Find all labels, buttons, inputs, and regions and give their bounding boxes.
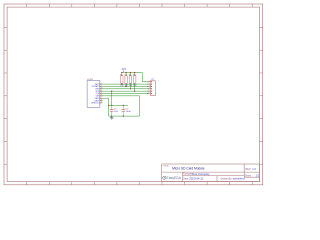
SD card socket CON1 box [87,81,100,108]
wire row CMD to P1 pin4 [104,88,147,90]
resistor R3 [129,73,133,89]
svg-text:REV:: REV: [246,168,252,171]
wire C1 column up to VDD row [111,91,113,105]
CON1 pin numbers [101,83,102,104]
svg-text:4: 4 [149,88,150,90]
wire 3V3 rail [122,72,143,74]
svg-text:1: 1 [101,83,102,85]
svg-text:Date:: Date: [183,177,189,180]
svg-text:3V3: 3V3 [122,68,127,71]
wire 3V3 drop to P1 pin1 [142,73,146,82]
svg-text:2020-04-11: 2020-04-11 [189,177,204,181]
svg-text:R2: R2 [125,74,127,76]
P1 pin connection dots [146,81,149,94]
CON1 pin stubs [100,84,104,103]
title block frame [162,164,260,182]
svg-text:EasyEDA: EasyEDA [167,176,182,180]
svg-text:CON1: CON1 [87,79,94,81]
junction dots cap bottom rail [111,116,112,117]
P1 pin stubs [147,82,151,94]
svg-text:3: 3 [101,88,102,90]
wire row DAT2 to P1 pin2 [104,83,147,85]
sheet border frame [4,4,263,185]
svg-text:Sheet:: Sheet: [245,174,252,177]
svg-text:2: 2 [101,85,102,87]
svg-text:Drawn By:: Drawn By: [221,177,233,180]
svg-text:10uF: 10uF [126,111,131,113]
border tick marks [4,4,263,185]
CON1 pin names [91,83,100,105]
svg-text:5: 5 [101,92,102,94]
P1 pin pads [150,81,153,94]
svg-text:1.0: 1.0 [252,167,256,171]
wire row CD/DAT3 to P1 pin3 [104,85,147,87]
EasyEDA logo [163,176,182,180]
svg-text:SHELL12: SHELL12 [91,103,99,105]
P1 pin numbers [149,80,150,94]
wire cap bottom rail [109,115,140,117]
wire row CLK to P1 pin6 [104,93,147,95]
svg-text:4: 4 [101,90,102,92]
svg-text:R3: R3 [129,74,131,76]
svg-text:3: 3 [149,85,150,87]
svg-text:adminled: adminled [233,177,245,181]
svg-text:8: 8 [101,99,102,101]
svg-text:5: 5 [149,90,150,92]
junction dots on 3V3 rail [121,72,135,73]
svg-text:R4: R4 [133,74,135,76]
3V3 net flag stem [123,71,125,73]
svg-text:1/1: 1/1 [256,173,260,177]
wire DAT0 down to cap loop [104,98,108,116]
junction dots at resistor bottoms [121,84,135,92]
svg-text:6: 6 [149,92,150,94]
svg-text:9: 9 [101,102,102,104]
capacitor C1 [110,105,119,116]
ground symbol [110,116,114,120]
svg-text:TITLE:: TITLE: [163,165,170,167]
svg-text:7: 7 [101,97,102,99]
resistor R4 [133,73,137,92]
connector P1 box [151,81,156,96]
svg-text:Micro SD Card Module: Micro SD Card Module [172,166,204,170]
svg-text:2: 2 [149,83,150,85]
svg-text:Your Company: Your Company [192,172,210,176]
resistor R2 [125,73,129,88]
capacitor C2 [122,105,132,116]
junction dot VDD to C1 column [111,91,112,92]
resistor R1 [120,73,124,88]
wire VSS row to GND riser [104,95,139,97]
svg-text:R1: R1 [120,74,122,76]
svg-text:1: 1 [149,80,150,82]
wire GND riser [139,96,141,116]
wire cap top rail [109,104,128,106]
svg-text:6: 6 [101,95,102,97]
wire row VDD to P1 pin5 [104,90,147,92]
junction dots cap top rail [108,105,109,106]
CON1 pin end dots [100,84,101,104]
